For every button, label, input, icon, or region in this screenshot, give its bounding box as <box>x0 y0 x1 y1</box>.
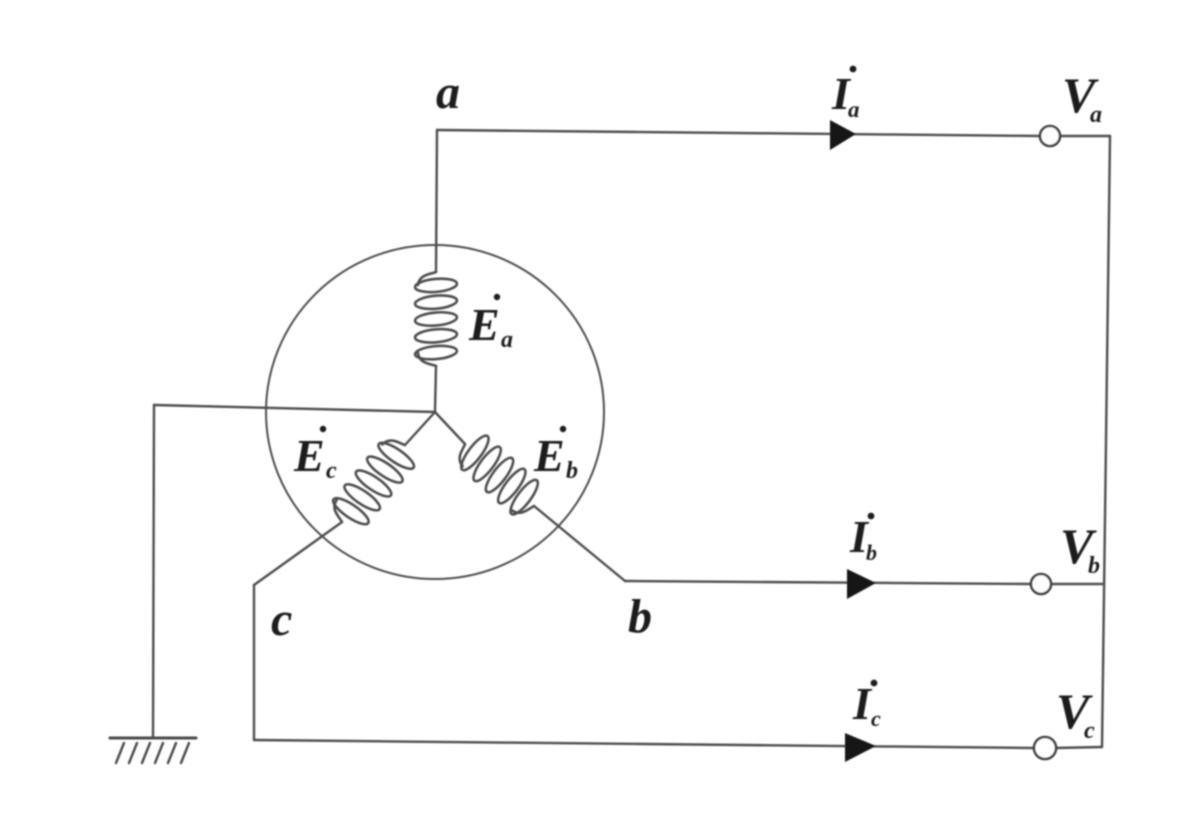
svg-text:E: E <box>293 430 325 481</box>
svg-text:b: b <box>866 540 877 565</box>
terminal Va <box>1040 126 1060 146</box>
svg-text:E: E <box>533 430 565 481</box>
terminal Vb <box>1031 574 1051 594</box>
inductor Ec <box>325 431 421 535</box>
wire: from terminal Va to right bus corner <box>1060 135 1110 137</box>
wire: coil Ec to node c corner <box>254 522 342 585</box>
svg-text:b: b <box>1088 553 1100 579</box>
label V_a <box>1062 67 1102 128</box>
terminal Vc <box>1034 737 1056 759</box>
label E_c <box>293 426 337 484</box>
svg-text:c: c <box>326 458 337 484</box>
ground <box>110 738 196 763</box>
wire: centre node to coil Ec <box>405 412 435 445</box>
wire: centre node to coil Ea <box>435 366 436 412</box>
label I_a <box>831 66 860 122</box>
svg-text:c: c <box>1084 718 1095 744</box>
wire: neutral vertical down to ground <box>153 405 154 738</box>
svg-text:b: b <box>628 590 652 643</box>
svg-text:E: E <box>468 299 500 350</box>
svg-text:a: a <box>436 66 460 119</box>
arrow Ia <box>830 120 856 150</box>
wire b: horizontal from node b to terminal Vb <box>625 581 1031 584</box>
inductor Ea <box>415 272 458 366</box>
svg-text:c: c <box>871 706 881 731</box>
svg-text:a: a <box>501 327 513 353</box>
wire: top horizontal from node a to terminal Va <box>437 130 1040 136</box>
svg-text:a: a <box>1090 102 1102 128</box>
wire: from terminal Vc to right bus bottom <box>1055 747 1102 748</box>
svg-text:I: I <box>852 678 873 729</box>
svg-text:c: c <box>271 593 292 646</box>
wire c: bottom horizontal to terminal Vc <box>254 740 1035 748</box>
label V_c <box>1056 683 1095 744</box>
inductor Eb <box>451 428 549 522</box>
label E_a <box>468 294 513 353</box>
stator circle <box>266 245 604 579</box>
label V_b <box>1060 518 1100 579</box>
wire: from terminal Vb to right bus <box>1051 583 1103 585</box>
arrow Ic <box>845 733 876 762</box>
wire: coil Eb to node b corner <box>534 506 625 581</box>
wire: centre node to coil Eb <box>435 412 465 444</box>
svg-text:a: a <box>848 97 860 122</box>
svg-text:b: b <box>566 458 578 484</box>
label I_c <box>852 678 881 731</box>
arrow Ib <box>847 569 876 599</box>
wire: right vertical bus <box>1102 136 1110 747</box>
wire c: vertical from node c down <box>253 585 255 740</box>
wire a: vertical lead from node a corner down to coil Ea <box>436 130 437 272</box>
wire: neutral horizontal from centre node to left <box>154 405 435 412</box>
label I_b <box>849 511 877 565</box>
label E_b <box>533 426 578 484</box>
